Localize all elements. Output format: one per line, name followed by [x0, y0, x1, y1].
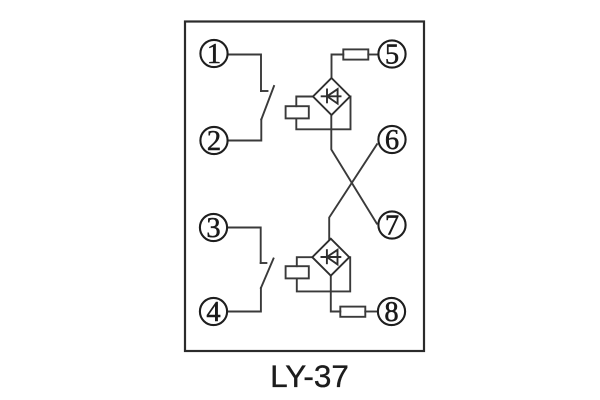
svg-text:LY-37: LY-37	[270, 358, 349, 394]
svg-text:4: 4	[206, 297, 220, 328]
svg-text:5: 5	[385, 39, 399, 70]
svg-text:3: 3	[206, 213, 220, 244]
svg-text:7: 7	[385, 210, 399, 241]
svg-text:2: 2	[207, 126, 221, 157]
svg-text:8: 8	[384, 297, 398, 328]
svg-text:1: 1	[207, 39, 221, 70]
svg-text:6: 6	[385, 125, 399, 156]
